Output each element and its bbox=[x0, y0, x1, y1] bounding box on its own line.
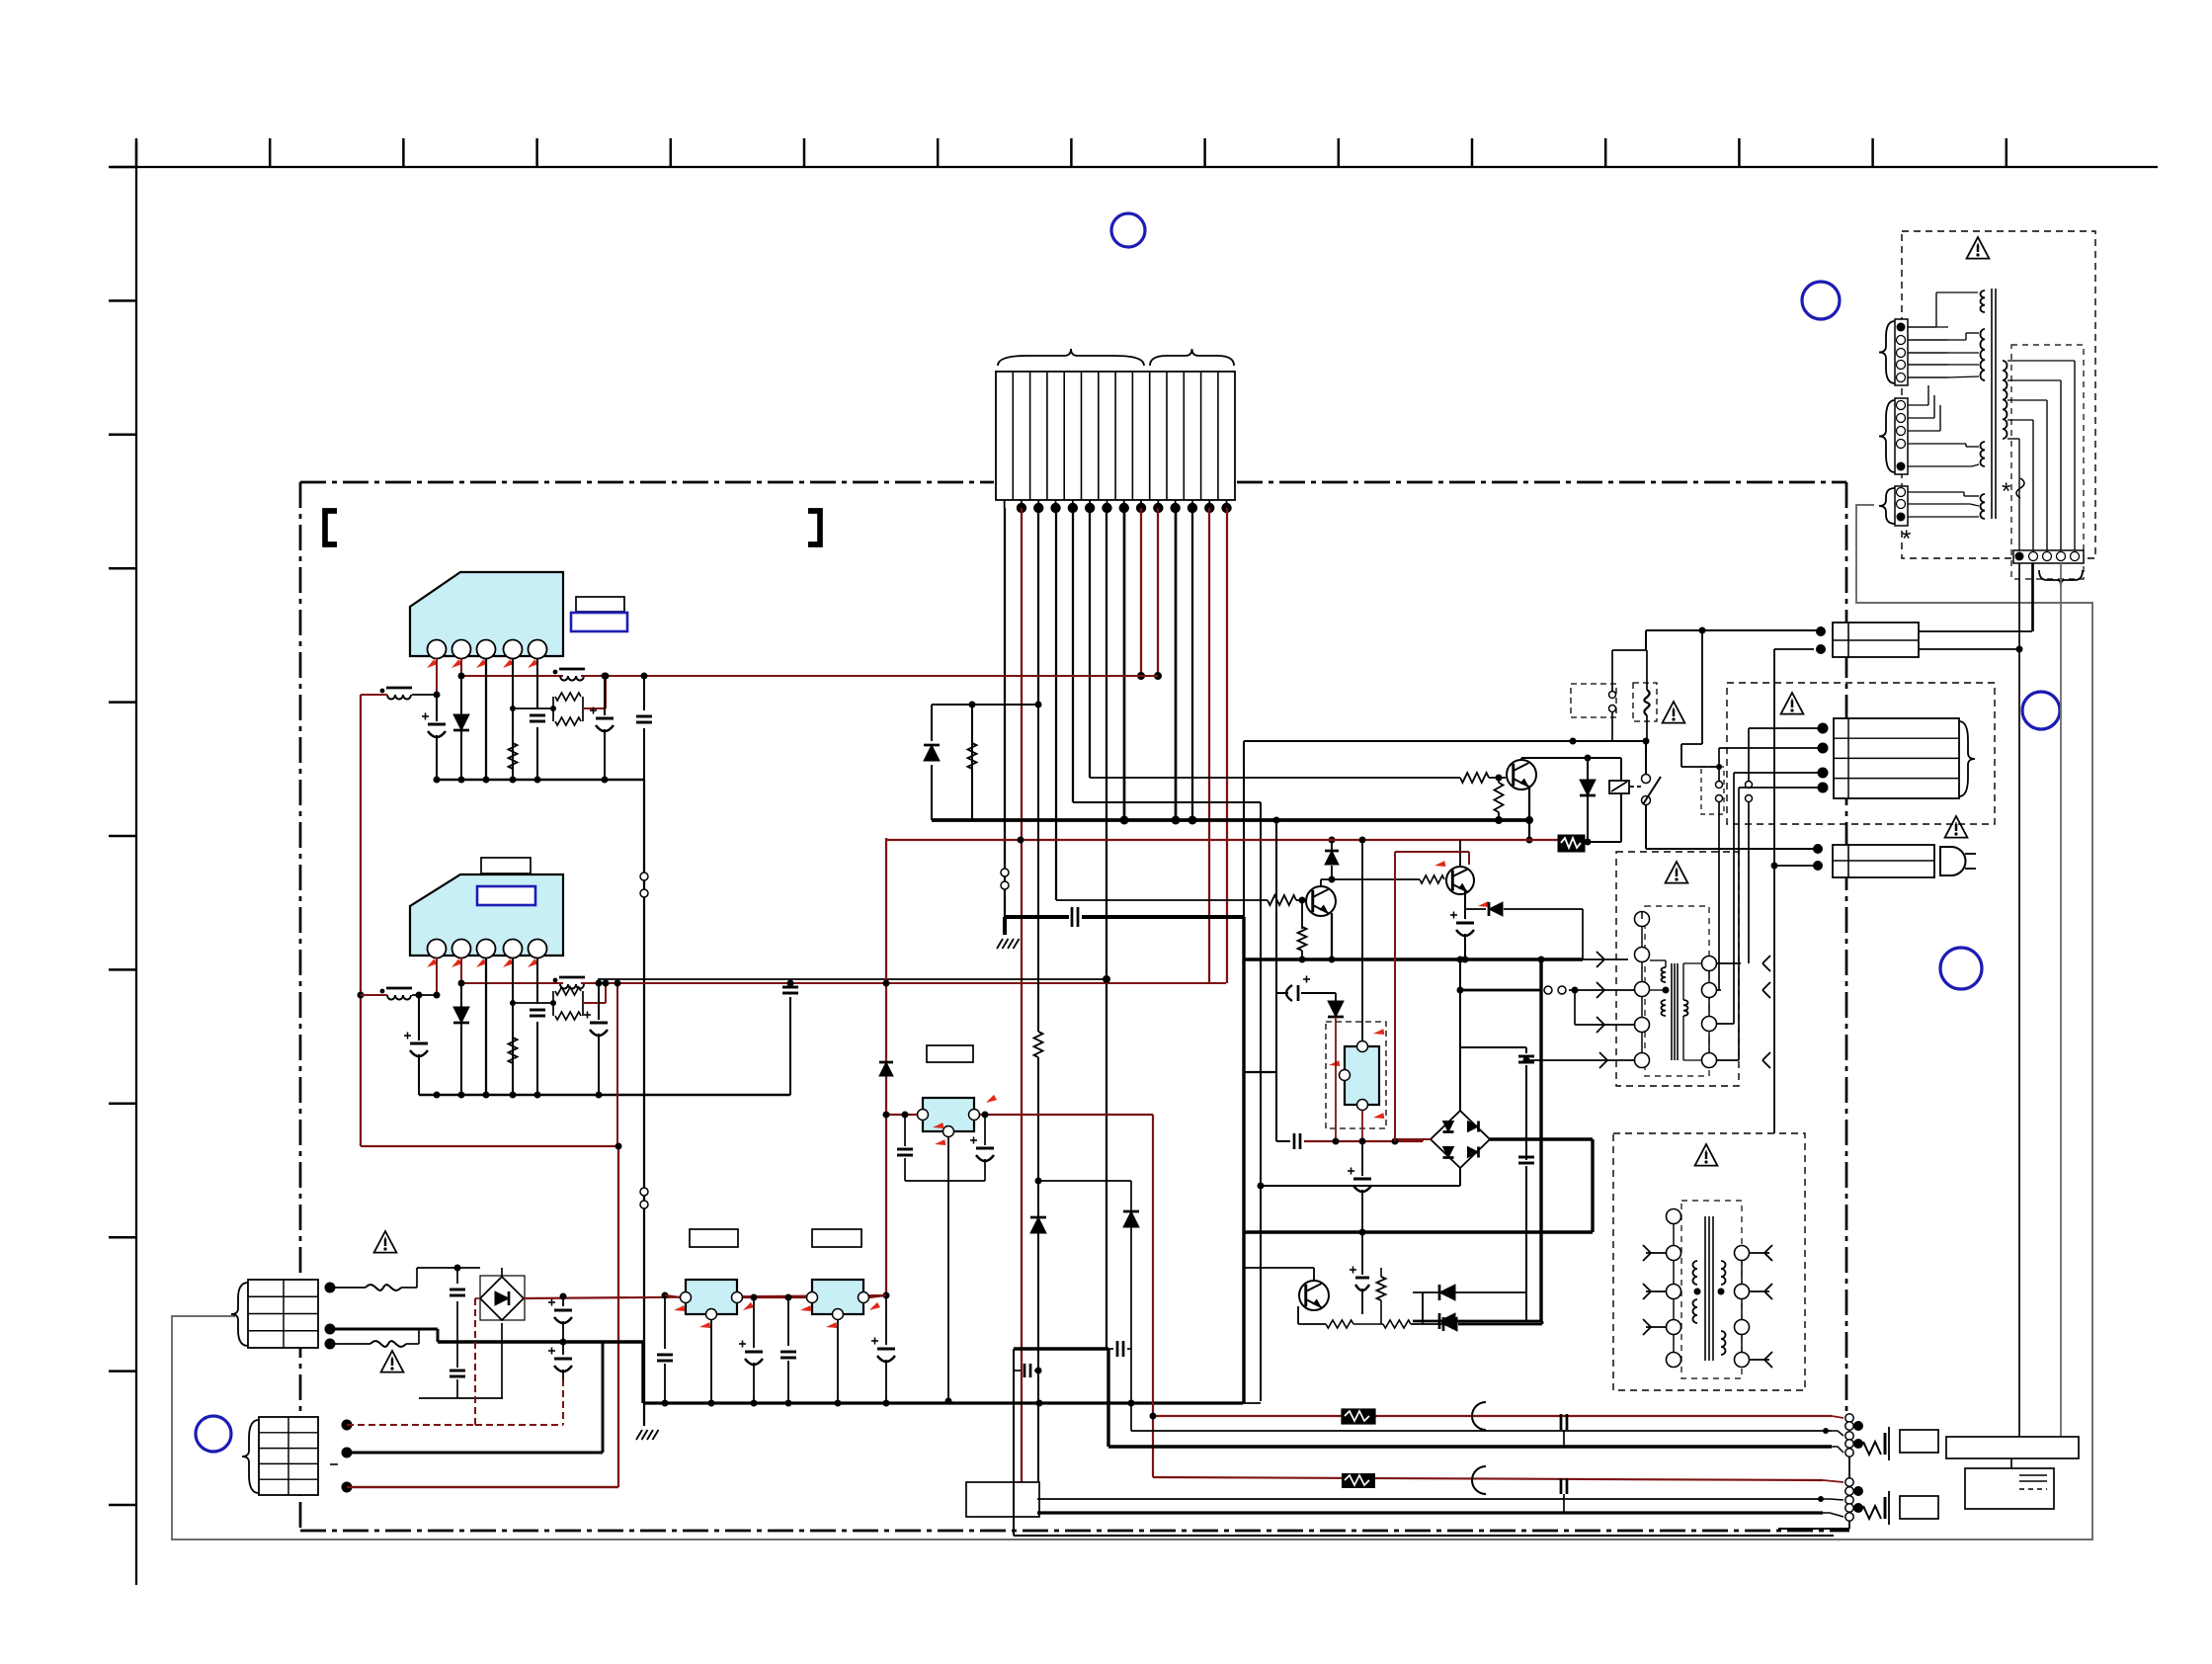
svg-text:*: * bbox=[1902, 526, 1911, 552]
svg-text:*: * bbox=[2002, 478, 2010, 505]
